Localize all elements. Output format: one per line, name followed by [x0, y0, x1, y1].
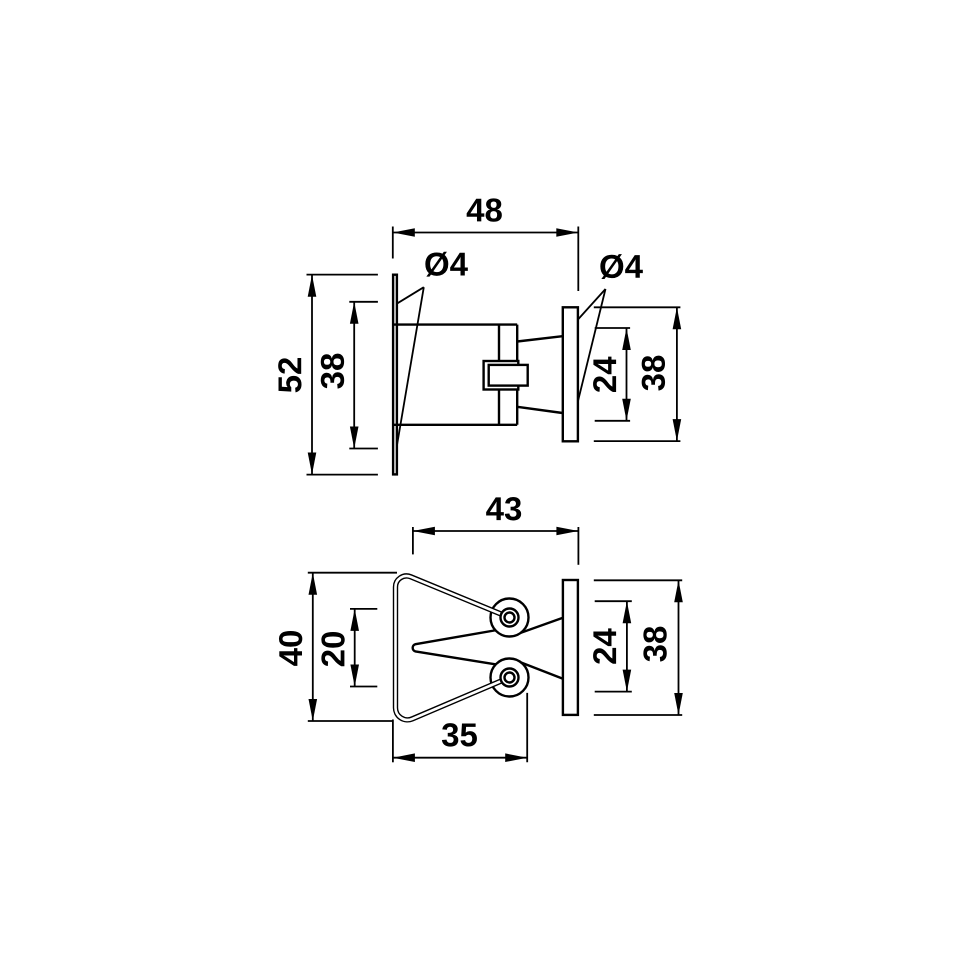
dim 48 dimension line — [393, 227, 579, 292]
dim 48 label — [467, 198, 502, 221]
adjuster clip outer (top view) — [484, 361, 519, 390]
right mounting plate (bottom view) — [563, 580, 578, 715]
dim 40 dimension line — [308, 573, 397, 721]
leader Ø4 left — [396, 287, 423, 448]
dim 24 bottom-view label — [593, 628, 616, 663]
dim 38 top-view right dimension line — [594, 307, 681, 441]
dim 38 bottom-view label — [643, 627, 666, 662]
label Ø4 left — [425, 252, 467, 277]
left mounting plate (top view) — [393, 275, 397, 475]
dim 43 dimension line — [413, 527, 579, 565]
dim 35 label — [442, 723, 477, 746]
dim 35 dimension line — [393, 693, 527, 762]
dim 24 top-view label — [593, 357, 616, 392]
dim 43 label — [486, 497, 521, 520]
leader Ø4 right — [570, 289, 605, 421]
right mounting plate (top view) — [563, 307, 578, 441]
adjuster clip inner (top view) — [489, 365, 528, 386]
spring wire (bottom view) — [395, 576, 509, 720]
dim 24 bottom-view dimension line — [595, 601, 632, 691]
dim 40 label — [279, 631, 302, 666]
dim 52 label — [278, 358, 301, 392]
dim 38 left label — [321, 354, 344, 389]
dim 20 dimension line — [350, 609, 377, 687]
body housing (top view) — [394, 325, 517, 425]
roller bottom outer circle (bottom view) — [491, 659, 529, 697]
cone to right plate (top view) — [517, 336, 562, 413]
dim 24 top-view dimension line — [595, 328, 631, 421]
striker tongue (bottom view) — [413, 618, 563, 679]
dim 52 dimension line — [307, 275, 378, 475]
dim 20 label — [321, 632, 344, 666]
dim 38 bottom-view dimension line — [594, 580, 683, 715]
dim 38 left dimension line — [349, 302, 378, 449]
roller top outer circle (bottom view) — [491, 599, 529, 637]
roller bottom spiral (bottom view) — [501, 669, 519, 687]
dim 38 top-view right label — [642, 356, 665, 391]
label Ø4 right — [600, 254, 642, 279]
roller top spiral (bottom view) — [501, 609, 519, 627]
